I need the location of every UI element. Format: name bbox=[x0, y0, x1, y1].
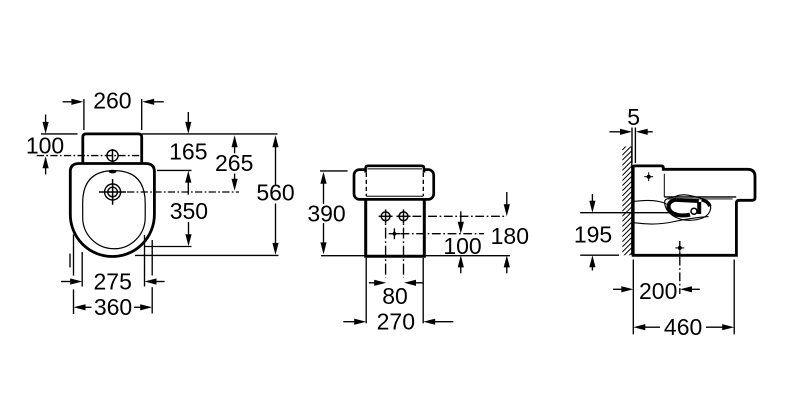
svg-text:200: 200 bbox=[639, 278, 677, 304]
svg-text:265: 265 bbox=[215, 150, 253, 176]
svg-text:260: 260 bbox=[93, 88, 131, 114]
svg-text:5: 5 bbox=[627, 104, 640, 130]
svg-text:195: 195 bbox=[574, 222, 612, 248]
svg-text:350: 350 bbox=[170, 198, 208, 224]
svg-text:390: 390 bbox=[307, 200, 345, 226]
svg-text:360: 360 bbox=[94, 294, 132, 320]
svg-text:100: 100 bbox=[26, 133, 64, 159]
svg-text:180: 180 bbox=[491, 223, 529, 249]
svg-text:275: 275 bbox=[94, 268, 132, 294]
svg-text:460: 460 bbox=[664, 314, 702, 340]
svg-text:560: 560 bbox=[256, 180, 294, 206]
svg-text:165: 165 bbox=[169, 139, 207, 165]
svg-text:100: 100 bbox=[443, 233, 481, 259]
svg-text:80: 80 bbox=[382, 283, 408, 309]
svg-text:270: 270 bbox=[377, 309, 415, 335]
